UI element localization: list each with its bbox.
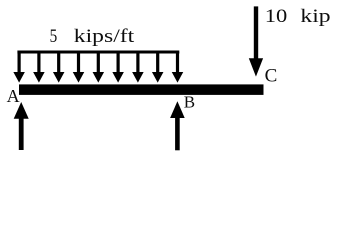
svg-text:10: 10 (265, 6, 288, 27)
distributed load arrow 5 (93, 52, 105, 83)
distributed load top line (17, 51, 179, 54)
node label B (184, 92, 195, 111)
distributed load arrow 3 (53, 52, 64, 83)
distributed load arrow 4 (73, 52, 85, 83)
point load arrow 10 kip at C (249, 6, 263, 76)
distributed load label "5 kips/ft" (50, 26, 58, 47)
point load label "10 kip" (265, 6, 288, 27)
reaction arrow at B (170, 101, 185, 150)
node label C (265, 66, 278, 87)
node label A (7, 86, 20, 106)
distributed load arrow 7 (132, 52, 144, 83)
svg-text:kip: kip (300, 6, 330, 27)
distributed load arrow 2 (33, 52, 45, 83)
svg-text:C: C (265, 66, 278, 87)
distributed load arrow 1 (13, 52, 25, 83)
svg-text:kips/ft: kips/ft (74, 26, 135, 47)
beam A-B-C (19, 84, 264, 95)
distributed load arrow 9 (172, 52, 184, 83)
svg-text:B: B (184, 92, 195, 111)
svg-text:A: A (7, 86, 20, 106)
reaction arrow at A (14, 102, 29, 150)
svg-text:5: 5 (50, 26, 58, 47)
distributed load arrow 8 (152, 52, 164, 83)
distributed load arrow 6 (112, 52, 124, 83)
